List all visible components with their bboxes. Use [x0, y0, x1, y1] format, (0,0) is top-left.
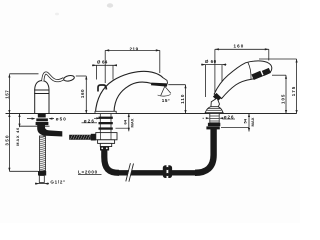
svg-text:160: 160	[80, 89, 85, 98]
svg-text:Ø 64: Ø 64	[97, 60, 108, 65]
svg-text:64: 64	[122, 119, 127, 124]
svg-text:219: 219	[130, 46, 139, 51]
svg-text:ø50: ø50	[56, 117, 67, 122]
svg-text:MAX: MAX	[250, 117, 255, 126]
svg-text:Ø 60: Ø 60	[205, 59, 217, 64]
svg-text:L=2000: L=2000	[78, 169, 98, 174]
svg-text:15°: 15°	[162, 98, 170, 103]
svg-text:105: 105	[280, 94, 285, 104]
svg-text:G1/2": G1/2"	[50, 180, 66, 185]
svg-text:MAX: MAX	[129, 118, 134, 127]
svg-text:110: 110	[180, 94, 185, 104]
svg-text:350: 350	[5, 134, 10, 145]
svg-text:54: 54	[243, 118, 248, 123]
svg-text:157: 157	[5, 90, 10, 99]
svg-text:175: 175	[291, 86, 296, 96]
svg-text:160: 160	[234, 44, 245, 49]
svg-text:MAX 40: MAX 40	[15, 127, 20, 146]
